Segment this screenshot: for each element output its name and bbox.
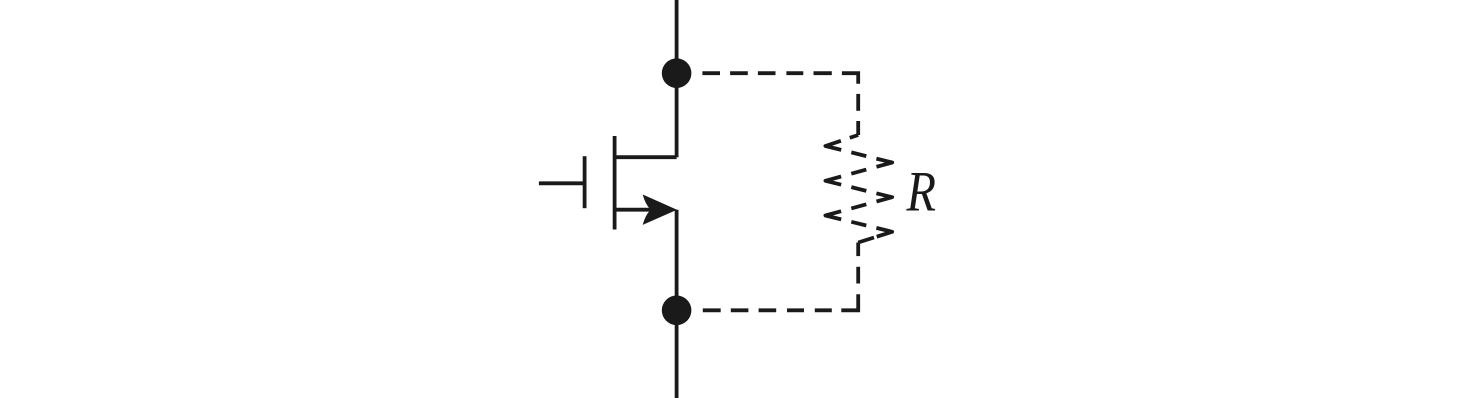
wire dashed bottom horizontal dash 2 bbox=[787, 308, 804, 312]
resistor R mid dash 4 bbox=[851, 204, 866, 208]
resistor R chevron left peak 3 bbox=[825, 211, 841, 219]
resistor R mid dash 2 bbox=[851, 170, 866, 174]
resistor R mid dash 5 bbox=[851, 222, 866, 226]
resistor R zigzag start dash bbox=[850, 135, 858, 138]
wire dashed right vertical upper dash 2 bbox=[856, 121, 860, 135]
wire dashed top horizontal dash 5 bbox=[814, 71, 832, 75]
wire dashed top horizontal dash 3 bbox=[758, 71, 776, 75]
resistor R zigzag end dash bbox=[858, 238, 874, 243]
resistor R chevron right peak 1 bbox=[876, 159, 892, 167]
transistor Q1 gate bar bbox=[583, 156, 587, 208]
wire dashed bottom-right corner dash bbox=[841, 294, 858, 310]
wire source vertical (source corner through node to bottom lead) bbox=[675, 210, 679, 398]
transistor Q1 channel bar bbox=[613, 136, 617, 230]
wire dashed right vertical lower dash 2 bbox=[856, 267, 860, 284]
wire dashed right vertical upper dash 1 bbox=[856, 94, 860, 111]
wire dashed bottom horizontal dash 5 bbox=[703, 308, 721, 312]
svg-text:R: R bbox=[906, 161, 936, 224]
wire dashed bottom horizontal dash 1 bbox=[815, 308, 832, 312]
node source junction dot bbox=[662, 296, 692, 326]
wire dashed right vertical lower dash 1 bbox=[856, 243, 860, 257]
wire dashed bottom horizontal dash 3 bbox=[759, 308, 777, 312]
resistor R chevron left peak 1 bbox=[825, 141, 841, 150]
resistor R chevron right peak 2 bbox=[876, 193, 892, 201]
resistor R mid dash 1 bbox=[851, 152, 866, 156]
wire dashed top horizontal dash 2 bbox=[730, 71, 748, 75]
wire drain vertical (top lead through node to drain corner) bbox=[675, 0, 679, 157]
transistor Q1 source arrowhead bbox=[643, 195, 677, 225]
wire dashed top-right corner dash bbox=[842, 73, 858, 84]
wire gate lead bbox=[539, 181, 587, 185]
wire dashed top horizontal dash 4 bbox=[786, 71, 803, 75]
wire drain horizontal bbox=[615, 155, 677, 159]
resistor R chevron right peak 3 bbox=[876, 228, 892, 237]
node drain junction dot bbox=[662, 58, 692, 88]
resistor R mid dash 3 bbox=[851, 187, 866, 191]
wire dashed top horizontal dash 1 bbox=[702, 71, 720, 75]
resistor R chevron left peak 2 bbox=[825, 177, 841, 185]
wire source horizontal bbox=[615, 208, 655, 212]
wire dashed bottom horizontal dash 4 bbox=[731, 308, 749, 312]
